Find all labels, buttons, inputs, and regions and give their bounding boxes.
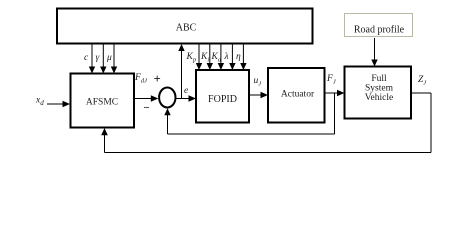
wire Ff feedback tap down segment — [334, 93, 336, 134]
svg-text:e: e — [184, 86, 188, 96]
wire Zf feedback bottom segment — [105, 152, 432, 154]
svg-text:η: η — [236, 52, 241, 62]
wire Zf feedback up into AFSMC — [101, 128, 108, 153]
svg-text:AFSMC: AFSMC — [86, 98, 118, 108]
block AFSMC U2 — [71, 74, 135, 128]
wire Ff feedback bottom segment — [168, 133, 335, 135]
svg-text:Actuator: Actuator — [281, 90, 315, 100]
box Road profile — [345, 14, 413, 37]
wire c from ABC to AFSMC — [89, 44, 95, 74]
svg-text:ABC: ABC — [176, 23, 197, 34]
block FOPID U3 — [196, 70, 249, 123]
wire road profile arrow into Full System Vehicle — [371, 38, 377, 67]
wire Ki from ABC to FOPID — [207, 44, 213, 70]
svg-text:μ: μ — [106, 53, 112, 63]
svg-text:γ: γ — [96, 53, 100, 63]
svg-text:Full: Full — [371, 74, 387, 84]
wire mu from ABC to AFSMC — [111, 44, 117, 74]
wire gamma from ABC to AFSMC — [100, 44, 106, 74]
wire xd input into AFSMC — [47, 101, 70, 107]
svg-text:−: − — [143, 102, 149, 114]
wire eta from ABC to FOPID — [240, 44, 246, 70]
block Actuator U4 — [268, 68, 325, 123]
wire Ff from Actuator to Full System Vehicle — [325, 90, 345, 96]
wire e from summing junction to FOPID — [176, 95, 196, 101]
wire uf from FOPID to Actuator — [249, 92, 268, 98]
block ABC U1 — [57, 9, 313, 44]
svg-text:Vehicle: Vehicle — [365, 93, 394, 103]
svg-text:λ: λ — [224, 52, 229, 62]
wire Zf feedback down segment — [430, 93, 432, 153]
wire e branch up into ABC — [178, 44, 184, 99]
summing junction S1 — [159, 88, 175, 108]
wire Zf output from Full System Vehicle — [411, 92, 431, 94]
svg-text:+: + — [154, 72, 161, 86]
wire Ff feedback up into summing junction minus input — [164, 108, 170, 134]
wire lambda from ABC to FOPID — [229, 44, 235, 70]
wire Kd from ABC to FOPID — [218, 44, 224, 70]
wire Kp from ABC to FOPID — [196, 44, 202, 70]
svg-text:System: System — [365, 84, 394, 94]
wire Fdf from AFSMC to summing junction — [134, 95, 158, 101]
svg-text:FOPID: FOPID — [208, 94, 237, 105]
svg-text:Road profile: Road profile — [354, 25, 405, 36]
block Full System Vehicle U5 — [345, 67, 412, 119]
